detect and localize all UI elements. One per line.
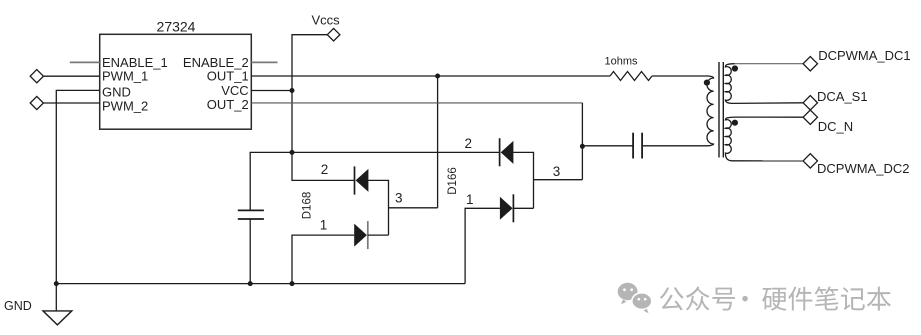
- net label DC_N: [818, 119, 853, 134]
- junction rail/C1: [248, 281, 253, 286]
- svg-text:GND: GND: [102, 84, 131, 99]
- junction OUT_1/D168 pin3: [435, 74, 440, 79]
- watermark wechat icon small bubble: [632, 293, 652, 313]
- svg-text:3: 3: [395, 191, 403, 206]
- svg-text:1: 1: [320, 217, 328, 232]
- port DCPWMA_DC1 diamond: [803, 57, 817, 71]
- resistor value 1ohms: [605, 56, 639, 68]
- wire D168 pin1 branch: [292, 235, 354, 284]
- wire D166 top to pin3 stem: [513, 152, 533, 208]
- svg-text:DCPWMA_DC1: DCPWMA_DC1: [818, 48, 910, 63]
- port DCA_S1 diamond: [803, 96, 817, 110]
- capacitor C2 left plate: [632, 133, 634, 159]
- wire resistor to T1 primary: [652, 75, 709, 77]
- junction OUT_2/cap branch: [580, 144, 585, 149]
- wire to DCPWMA_DC2: [732, 160, 804, 162]
- wire D166 pin1 branch: [465, 208, 500, 283]
- svg-text:1ohms: 1ohms: [605, 56, 639, 68]
- junction VCC/Vccs: [290, 88, 295, 93]
- U1 pin name ENABLE_2: [183, 55, 249, 70]
- wire PWM_1: [43, 75, 99, 77]
- diode D166 bottom cathode bar: [512, 194, 514, 222]
- D168 pin3 number: [395, 191, 403, 206]
- ground symbol: [43, 311, 72, 325]
- diode D168 top triangle: [356, 169, 369, 192]
- watermark text 公众号·硬件笔记本: [660, 286, 891, 310]
- U1 pin name GND: [102, 84, 131, 99]
- D166 refdes: [447, 167, 459, 195]
- capacitor C2 right plate: [641, 133, 643, 159]
- diode D168 top cathode bar: [354, 166, 356, 194]
- net label DCA_S1: [817, 89, 868, 104]
- resistor R1 1ohms: [610, 72, 652, 81]
- svg-text:DC_N: DC_N: [818, 119, 853, 134]
- wire PWM_2: [43, 102, 99, 104]
- D168 pin2 number: [321, 162, 329, 177]
- svg-text:GND: GND: [4, 299, 32, 313]
- svg-text:D168: D168: [302, 192, 314, 220]
- diode D168 bottom triangle: [354, 224, 367, 247]
- svg-text:Vccs: Vccs: [312, 13, 341, 28]
- IC U1 27324 body: [100, 34, 252, 129]
- wire VCC pin: [251, 90, 292, 92]
- port DC_N diamond: [803, 110, 817, 124]
- T1 lower secondary phase dot: [732, 120, 738, 126]
- D166 pin3 number: [553, 164, 561, 179]
- U1 pin name ENABLE_1: [102, 55, 168, 70]
- port Vccs diamond: [327, 28, 340, 41]
- svg-text:3: 3: [553, 164, 561, 179]
- watermark wechat icon big bubble: [618, 283, 638, 305]
- capacitor C1 bottom plate: [238, 218, 264, 220]
- svg-text:ENABLE_1: ENABLE_1: [102, 55, 168, 70]
- wire OUT_1 to resistor: [251, 75, 610, 77]
- transformer T1 secondary winding lower: [725, 117, 734, 161]
- wire OUT_2 horizontal: [251, 102, 582, 104]
- U1 pin name VCC: [221, 83, 248, 98]
- D166 pin1 number: [466, 192, 474, 207]
- D168 pin1 number: [320, 217, 328, 232]
- junction rail/GND symbol: [54, 281, 59, 286]
- svg-text:27324: 27324: [157, 18, 196, 34]
- wire D168 pin2 branch: [292, 152, 355, 180]
- transformer T1 primary winding: [707, 76, 714, 146]
- svg-text:OUT_1: OUT_1: [207, 69, 249, 84]
- T1 core bar left: [718, 62, 720, 158]
- U1 pin name OUT_1: [207, 69, 249, 84]
- wire node to C2: [582, 145, 633, 147]
- junction node cap/D168: [290, 150, 295, 155]
- junction rail/D168 pin1: [290, 281, 295, 286]
- wire D166 bottom to stem: [513, 207, 533, 209]
- wire Vccs branch: [292, 35, 327, 91]
- net label DCPWMA_DC2: [817, 161, 909, 176]
- svg-text:2: 2: [321, 162, 329, 177]
- svg-text:PWM_1: PWM_1: [102, 69, 148, 84]
- svg-text:2: 2: [465, 136, 473, 151]
- capacitor C1 top plate: [238, 209, 264, 211]
- wire C2 to T1 primary: [642, 145, 708, 147]
- wire D166 pin3: [534, 179, 583, 181]
- wire GND symbol lead: [55, 284, 57, 311]
- diode D166 top triangle: [501, 141, 514, 164]
- wire D168 top to pin3 stem: [368, 180, 388, 235]
- T1 core bar right: [722, 62, 724, 158]
- port PWM_2 diamond: [30, 96, 43, 109]
- svg-text:OUT_2: OUT_2: [207, 97, 249, 112]
- svg-text:DCA_S1: DCA_S1: [817, 89, 868, 104]
- pin stub ENABLE_1: [70, 61, 100, 63]
- wire ground rail: [56, 283, 465, 285]
- diode D166 top cathode bar: [499, 138, 501, 166]
- U1 pin name OUT_2: [207, 97, 249, 112]
- U1 pin name PWM_2: [102, 99, 148, 114]
- svg-text:VCC: VCC: [221, 83, 248, 98]
- wire Vccs down to node: [291, 91, 293, 153]
- transformer T1 secondary winding upper: [725, 64, 734, 104]
- D168 refdes: [302, 192, 314, 220]
- T1 primary phase dot: [704, 80, 710, 86]
- diode D166 bottom triangle: [500, 197, 513, 220]
- U1 part number label 27324: [157, 18, 196, 34]
- wire OUT_2 drop: [581, 103, 583, 180]
- port PWM_1 diamond: [30, 70, 43, 83]
- wire OUT_1 drop to D168 pin3: [437, 76, 439, 208]
- pin stub ENABLE_2: [251, 61, 277, 63]
- diode D168 bottom cathode bar: [367, 221, 369, 249]
- wire D168 bottom to stem: [368, 234, 389, 236]
- svg-text:DCPWMA_DC2: DCPWMA_DC2: [817, 161, 909, 176]
- T1 upper secondary phase dot: [732, 65, 738, 71]
- wire D168 pin3: [389, 207, 438, 209]
- wire to DC_N: [735, 116, 804, 118]
- svg-text:D166: D166: [447, 167, 459, 195]
- svg-text:PWM_2: PWM_2: [102, 99, 148, 114]
- wire D166 pin2 number: [465, 136, 473, 151]
- net label DCPWMA_DC1: [818, 48, 910, 63]
- svg-text:ENABLE_2: ENABLE_2: [183, 55, 249, 70]
- ground net label GND: [4, 299, 32, 313]
- net label Vccs: [312, 13, 341, 28]
- wire node to C1 top: [250, 152, 499, 210]
- port DCPWMA_DC2 diamond: [803, 154, 817, 168]
- wire to DCPWMA_DC1: [735, 63, 804, 65]
- wire to DCA_S1: [732, 102, 804, 105]
- U1 pin name PWM_1: [102, 69, 148, 84]
- wire C1 bottom lead: [249, 219, 251, 284]
- wire GND pin to corner: [56, 90, 99, 283]
- svg-text:1: 1: [466, 192, 474, 207]
